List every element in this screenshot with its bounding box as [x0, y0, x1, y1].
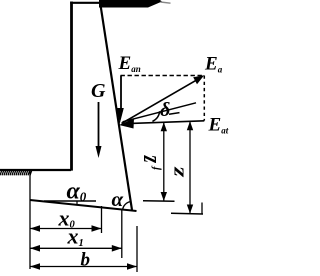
- backfill surface faint tail: [161, 2, 171, 3]
- extension line b right: [136, 226, 138, 272]
- dashed rectangle top edge: [121, 75, 205, 77]
- svg-text:b: b: [81, 250, 91, 271]
- extension line x1 right: [121, 210, 123, 259]
- ground line left of wall: [0, 169, 71, 171]
- z_f bottom reference line: [143, 200, 175, 203]
- delta angle arc: [152, 111, 159, 121]
- z_f dimension arrow bottom: [161, 192, 167, 201]
- svg-text:δ: δ: [160, 99, 170, 121]
- x0 left arrow: [30, 225, 40, 232]
- vector E_at arrowhead: [119, 119, 134, 129]
- alpha angle arc: [123, 202, 131, 210]
- b right arrow: [127, 263, 137, 270]
- b dimension line: [30, 266, 137, 268]
- z dimension arrow top: [187, 121, 193, 130]
- x1 right arrow: [112, 245, 122, 252]
- delta ray from P: [123, 103, 197, 122]
- G weight arrow: [98, 102, 100, 150]
- svg-text:z: z: [132, 155, 162, 163]
- x0 dimension line: [30, 228, 102, 230]
- delta angle dash: [169, 113, 180, 115]
- alpha0 horizontal ray: [44, 200, 96, 202]
- z_f dimension arrow top: [161, 122, 167, 131]
- base line: [30, 200, 137, 211]
- ground hatching: [0, 171, 32, 176]
- wall front face: [70, 2, 73, 171]
- z bottom reference line: [171, 212, 203, 215]
- wall back face: [101, 5, 133, 210]
- b left arrow: [30, 263, 40, 270]
- x0 right arrow: [92, 225, 102, 232]
- svg-text:G: G: [91, 80, 106, 102]
- wall top edge: [70, 2, 102, 4]
- z dimension line: [189, 121, 191, 213]
- vector E_at line: [131, 121, 204, 124]
- dashed rectangle right edge: [203, 76, 205, 121]
- x1 left arrow: [30, 245, 40, 252]
- svg-text:α: α: [112, 187, 124, 211]
- extension line x0 right: [101, 206, 103, 233]
- z_f dimension line: [163, 122, 165, 201]
- svg-text:z: z: [167, 166, 188, 177]
- vector E_an arrowhead: [117, 108, 124, 124]
- z bottom right tick: [201, 203, 203, 215]
- alpha0 angle tick: [76, 201, 78, 206]
- backfill ground surface (thick stroke): [99, 0, 162, 8]
- extension line left (x=30): [29, 171, 31, 269]
- x1 dimension line: [30, 247, 122, 249]
- vector E_a line: [122, 80, 197, 123]
- vector E_a arrowhead at corner: [193, 75, 204, 84]
- vector E_an line: [120, 76, 122, 111]
- z dimension arrow bottom: [187, 205, 193, 214]
